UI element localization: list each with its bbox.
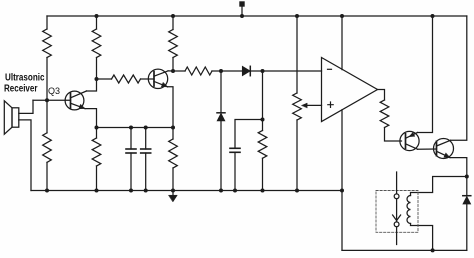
relay switch contact line (393, 172, 401, 245)
transistor Q5 (NPN driver) (434, 139, 454, 159)
wire node G to relay coil top (411, 177, 467, 196)
wire Q2 collector to node E (168, 70, 173, 72)
diode D3 (flyback) (463, 177, 471, 251)
wire Q4 collector to Q5 base (418, 148, 437, 150)
wire detector output to comparator inverting input (263, 70, 322, 72)
wire Q4 emitter to top rail column (418, 16, 433, 133)
svg-text:Receiver: Receiver (4, 84, 38, 95)
resistor R1 (top rail to node A) (43, 16, 52, 100)
wire op-amp V- pin down to bottom rail (341, 110, 343, 251)
wire Q3 collector up to node B (87, 79, 97, 91)
bottom negative rail wire (342, 249, 467, 251)
wire Q5 collector to top rail right column (451, 16, 467, 140)
wire op-amp V+ pin to top rail (341, 16, 343, 70)
ultrasonic transducer LS1 (receiver) (4, 101, 18, 134)
potentiometer wiper arrow to non-inverting input (302, 103, 322, 108)
resistor R6 (top rail to node E) (169, 16, 178, 71)
transistor Q2 (148, 69, 168, 88)
top supply rail wire (47, 15, 467, 17)
wire Q3 emitter down to node C (85, 109, 97, 128)
wire emitter bypass node C to node D (97, 127, 174, 129)
resistor R8 (node E to diode D1) (173, 67, 221, 75)
wire transducer bottom terminal to ground rail (19, 120, 31, 191)
relay K1 dashed enclosure (376, 191, 418, 233)
resistor R5 (node B to Q2 base) (97, 75, 155, 83)
resistor R9 (filter load) (258, 120, 267, 191)
capacitor C1 (126, 128, 136, 191)
resistor R4 (Q3 emitter node C to ground) (92, 128, 101, 191)
resistor R11 (op-amp output to Q4 base) (378, 90, 402, 142)
wire Q5 emitter to node G (450, 158, 467, 177)
relay K1 coil (407, 196, 410, 224)
op-amp U1 (comparator) (322, 58, 378, 122)
wire Q2 emitter down to node D (168, 87, 174, 128)
potentiometer R10 (threshold) (293, 16, 302, 191)
node F column wire (262, 71, 264, 120)
ground symbol (169, 191, 178, 202)
diode D1 (series detector) (221, 66, 263, 75)
svg-text:Q3: Q3 (48, 86, 60, 96)
resistor R3 (top rail to Q3 collector node B) (92, 16, 101, 79)
wire relay coil bottom to bottom rail (411, 224, 433, 251)
transistor Q4 (PNP driver) (400, 131, 419, 150)
capacitor C3 (filter) (230, 120, 263, 191)
diode D2 (clamp, pointing up) (217, 71, 225, 191)
transistor Q3 (65, 91, 86, 110)
resistor R7 (node D to ground) (169, 128, 178, 191)
power terminal +V (239, 1, 244, 16)
svg-text:Ultrasonic: Ultrasonic (5, 73, 45, 84)
resistor R2 (node A to ground) (43, 100, 52, 190)
ground rail wire (31, 190, 342, 192)
capacitor C2 (141, 128, 151, 191)
wire transducer top terminal to node A (19, 100, 33, 113)
wire node A to Q3 base (33, 99, 71, 101)
